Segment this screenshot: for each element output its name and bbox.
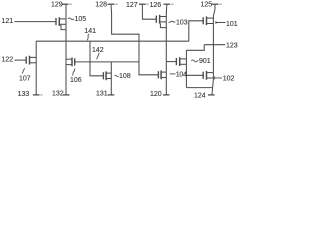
leader of label 103 [169, 21, 176, 22]
svg-text:121: 121 [2, 18, 14, 25]
svg-text:141: 141 [84, 28, 96, 35]
leader of label 106 [73, 69, 75, 76]
terminal 125 tick [212, 3, 219, 5]
svg-text:129: 129 [51, 2, 63, 9]
wire gate of 101 to rail [189, 21, 204, 41]
wire column 101/102 (terminal 125 to terminal 124) [212, 4, 215, 95]
svg-text:142: 142 [92, 47, 104, 54]
svg-text:107: 107 [19, 75, 31, 82]
terminal 133 dash [40, 94, 42, 96]
transistor 108 [103, 71, 111, 80]
svg-text:108: 108 [119, 73, 131, 80]
wire column 901 drain-source [185, 50, 187, 87]
terminal 127 dash [146, 3, 149, 5]
leader of label 104 [170, 73, 176, 75]
wire 121 to gate of 105 [15, 21, 57, 23]
svg-text:120: 120 [150, 91, 162, 98]
wire column 105/106 (terminal 129 to terminal 132) [65, 4, 67, 95]
transistor 105 [56, 17, 66, 26]
terminal 125 dash [219, 3, 222, 5]
svg-text:131: 131 [96, 90, 108, 97]
terminal 127 tick [139, 3, 146, 5]
leader of label 107 [22, 68, 24, 73]
transistor 107 [26, 56, 36, 65]
terminal 133 tick [33, 94, 40, 96]
wire rail to gate of 108 [90, 41, 104, 76]
transistor 106 [66, 58, 75, 67]
terminal 131 tick [108, 94, 115, 96]
wire gate of 901 [166, 61, 177, 63]
svg-text:124: 124 [194, 93, 206, 100]
wire column 107 drain-source (rail to terminal 133) [35, 41, 37, 95]
svg-text:102: 102 [223, 76, 235, 83]
svg-text:101: 101 [226, 21, 238, 28]
wire column 126/103/104 (terminal 126 to terminal 120) [165, 4, 168, 95]
wire column 108 (node 142 to terminal 131) [110, 62, 112, 96]
leader of label 105 [68, 18, 74, 20]
leader of label 101 [216, 21, 226, 24]
terminal 129 dash [69, 3, 72, 5]
wire gate of 102 [186, 74, 203, 76]
transistor 103 [156, 15, 166, 24]
svg-text:132: 132 [52, 91, 64, 98]
wire 127 to gate of 103 [142, 4, 157, 19]
wire jog under 103 [160, 23, 166, 27]
svg-text:125: 125 [201, 2, 213, 9]
terminal 124 tick [208, 94, 215, 96]
wire rail node 141 [36, 40, 189, 42]
terminal 126 tick [164, 3, 171, 5]
svg-text:104: 104 [176, 71, 187, 78]
transistor 104 [158, 70, 166, 79]
wire 122 to gate of 107 [15, 59, 27, 61]
transistor 101 [203, 16, 213, 25]
svg-text:901: 901 [199, 58, 211, 65]
svg-text:123: 123 [226, 42, 238, 49]
wire node 142 [75, 61, 139, 63]
svg-text:105: 105 [75, 16, 87, 23]
leader of label 901 [191, 60, 198, 62]
wire 901 source to 124 line [186, 87, 212, 89]
leader of label 108 [115, 75, 119, 76]
svg-text:133: 133 [18, 91, 30, 98]
svg-text:128: 128 [95, 2, 107, 9]
terminal 120 tick [163, 94, 170, 96]
svg-text:126: 126 [150, 2, 162, 9]
wire 128 vertical [111, 4, 159, 75]
leader of label 102 [215, 76, 223, 79]
leader of label 141 [87, 34, 89, 40]
wire jog under 105 [61, 25, 66, 30]
terminal 129 tick [62, 3, 69, 5]
svg-text:122: 122 [2, 57, 14, 64]
wire node 123 staircase [186, 45, 204, 51]
terminal 128 dash [115, 3, 118, 5]
svg-text:127: 127 [126, 2, 138, 9]
leader of label 142 [97, 53, 100, 60]
terminal 128 tick [108, 3, 115, 5]
wire node 123 [204, 44, 225, 46]
svg-text:106: 106 [70, 77, 82, 84]
transistor 102 [203, 71, 213, 80]
terminal 132 tick [63, 94, 70, 96]
transistor 901 [176, 57, 186, 66]
svg-text:103: 103 [176, 19, 188, 26]
